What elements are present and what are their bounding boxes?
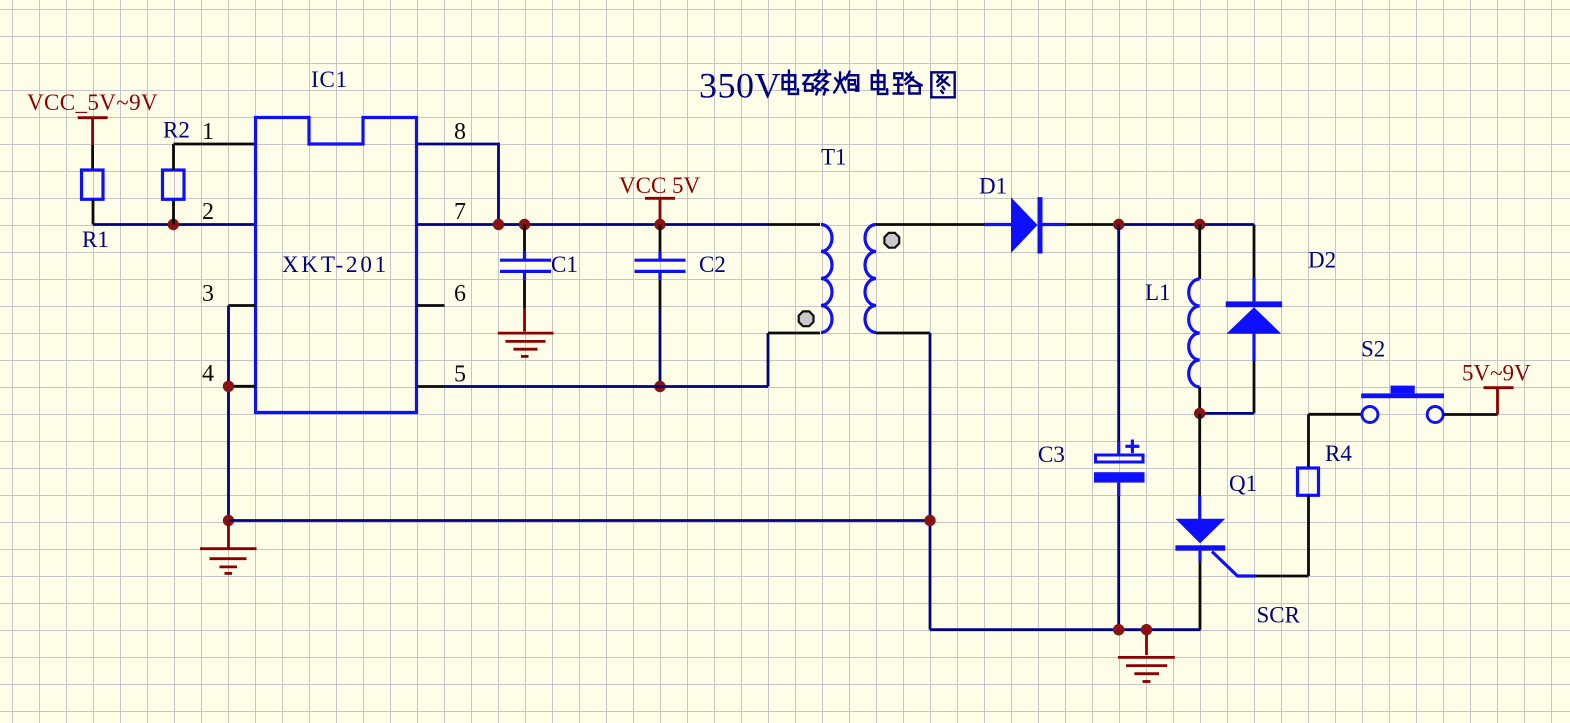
op-amp IC1 body XKT-201 [256,118,417,413]
switch S2 pushbutton [1361,386,1444,423]
svg-text:7: 7 [454,199,466,225]
wire L1 top pin [1198,225,1201,280]
junction node L1 bottom / SCR anode [1194,408,1205,419]
svg-text:C3: C3 [1038,442,1065,467]
wire T1 secondary top to D1 [876,223,984,226]
junction node R2/pin2 [168,219,179,230]
capacitor C3 electrolytic [1094,455,1145,483]
junction node gnd rail left [223,515,234,526]
junction node pin8/pin7 [493,219,504,230]
wire C1 top pin [523,225,526,260]
title CJK lu [893,72,922,93]
wire pin7 rail [417,223,769,226]
ground symbol C1 [498,308,554,356]
wire VCC to R1 [91,145,94,170]
svg-text:6: 6 [454,281,466,307]
wire long ground rail [229,519,931,522]
transformer T1 primary coil [821,225,832,333]
wire C3 branch vertical [1117,225,1120,454]
svg-text:D2: D2 [1308,247,1336,272]
svg-text:5V~9V: 5V~9V [1462,361,1531,386]
power VCC 5V bar symbol [645,198,675,224]
wire C3 bottom [1117,483,1120,630]
capacitor C1 [500,260,551,271]
wire bottom rail [930,628,1201,631]
svg-text:D1: D1 [979,174,1007,199]
wire R1 bottom to pin2 [93,199,256,224]
wire D1 to junction [1066,223,1119,226]
svg-text:L1: L1 [1145,280,1171,305]
svg-text:VCC 5V: VCC 5V [619,173,701,198]
svg-text:R1: R1 [82,227,109,252]
svg-text:4: 4 [202,361,214,387]
wire pin8 to pin7 rail [417,144,499,225]
power VCC bar symbol [78,118,108,145]
svg-text:XKT-201: XKT-201 [282,252,389,277]
resistor R1 [82,170,104,199]
svg-text:SCR: SCR [1257,603,1301,628]
wire C2 top pin [659,225,662,260]
junction node L1 top [1194,219,1205,230]
wire C2 bottom pin [658,273,661,387]
diode D1 [984,197,1066,253]
wire D2 top pin [1253,225,1256,302]
wire pin3 to pin4 vertical [227,306,230,521]
wire R2 bottom pin [172,199,175,224]
svg-text:8: 8 [454,119,466,145]
pin 4 stub [229,385,256,388]
capacitor C2 [635,260,686,271]
wire pin5 rail to T1 primary bottom [768,333,820,387]
svg-text:Q1: Q1 [1229,471,1257,496]
title CJK pao [834,71,858,92]
junction node secondary/gnd rail [924,515,935,526]
svg-text:C2: C2 [699,252,726,277]
svg-text:5: 5 [454,362,466,388]
capacitor C3 plus sign [1125,440,1139,454]
transformer T1 secondary coil [865,225,876,333]
title CJK ci [803,70,830,94]
title CJK dian [783,70,798,94]
wire SCR cathode [1198,551,1201,630]
wire pin7 rail to T1 primary top [768,223,820,226]
power 5V~9V bar symbol [1484,388,1514,415]
ground symbol bottom [1118,630,1175,682]
svg-text:2: 2 [202,199,214,225]
resistor R4 [1298,468,1319,495]
svg-text:R2: R2 [163,118,190,143]
junction node C1 top [519,219,530,230]
svg-text:R4: R4 [1325,441,1352,466]
pin 3 stub [229,304,256,307]
title CJK dian2 [872,70,887,94]
wire SCR gate to R4 [1255,575,1309,578]
pin 6 stub [417,304,445,307]
svg-text:T1: T1 [821,145,847,170]
svg-text:350V: 350V [699,66,781,106]
wire C1 bottom pin [523,273,526,308]
svg-text:3: 3 [202,281,214,307]
wire T1 secondary bottom [876,333,930,630]
wire D2 bottom pin [1200,334,1254,414]
title CJK tu [931,72,954,97]
wire R4 top pin [1307,414,1310,468]
wire R4 bottom pin [1307,495,1310,576]
T1 secondary polarity dot [884,233,899,248]
inductor L1 [1189,279,1200,387]
junction node C2/VCC [654,219,665,230]
junction node C3 top [1113,219,1124,230]
junction node C2 bottom [654,381,665,392]
wire R4 to S2 [1309,413,1363,416]
wire top rail right [1119,223,1254,226]
wire S2 to power [1443,413,1497,416]
junction node ground bottom [1141,624,1152,635]
svg-text:1: 1 [202,119,214,145]
wire R2 top to pin1 [174,144,256,170]
resistor R2 [163,170,185,199]
junction node pin4 [223,381,234,392]
diode D2 [1226,301,1282,333]
svg-text:C1: C1 [551,252,578,277]
ground symbol left [200,521,257,574]
svg-text:VCC_5V~9V: VCC_5V~9V [27,90,158,115]
T1 primary polarity dot [799,311,814,326]
svg-text:IC1: IC1 [311,67,348,92]
thyristor SCR [1175,519,1255,576]
wire L1 bottom pin [1198,387,1201,413]
wire SCR anode [1198,413,1201,519]
wire pin5 rail [417,385,769,388]
svg-text:S2: S2 [1361,337,1385,362]
junction node C3 bottom [1113,624,1124,635]
